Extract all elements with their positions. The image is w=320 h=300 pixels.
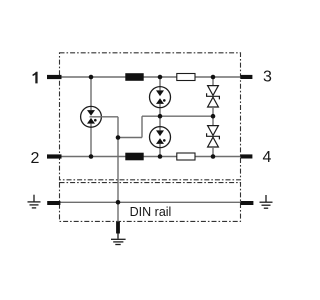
ground symbol right bbox=[260, 195, 273, 208]
svg-text:2: 2 bbox=[31, 150, 40, 167]
label 1 bbox=[33, 72, 38, 84]
node dot step bbox=[116, 135, 121, 140]
wire mid node line bbox=[142, 115, 213, 117]
node dot line1/GDT F2 bbox=[158, 75, 163, 80]
inductor L1 (line 1) bbox=[125, 73, 143, 81]
svg-text:DIN rail: DIN rail bbox=[130, 205, 172, 219]
wire step down bbox=[117, 117, 119, 138]
svg-text:4: 4 bbox=[263, 149, 272, 166]
node dot line1/GDT F1 bbox=[89, 75, 94, 80]
gas discharge tube F2 (upper right) bbox=[150, 77, 171, 116]
node dot line2/GDT F1 bbox=[89, 154, 94, 159]
suppressor diode pair V1 (upper, back-to-back zener) bbox=[207, 77, 220, 116]
inductor L2 (line 2) bbox=[125, 153, 143, 161]
ground stub terminal (below DIN box) bbox=[116, 222, 120, 234]
wire ground rail line bbox=[58, 201, 242, 203]
node dot line1/V1 bbox=[211, 75, 216, 80]
suppressor diode pair V2 (lower, back-to-back zener) bbox=[207, 116, 220, 156]
gas discharge tube F3 (lower right) bbox=[150, 116, 171, 156]
ground symbol left bbox=[28, 195, 41, 208]
ground terminal right bbox=[240, 201, 253, 205]
wire line 2 (terminal 2 to terminal 4) bbox=[58, 156, 242, 158]
node dot ground rail bbox=[116, 200, 121, 205]
wire step up bbox=[141, 116, 143, 137]
DIN rail box (dash-dot) bbox=[60, 183, 241, 222]
terminal 2 bbox=[47, 154, 62, 158]
resistor R1 (line 1) bbox=[177, 74, 195, 81]
terminal 3 bbox=[240, 75, 252, 79]
wire step horizontal bbox=[118, 137, 142, 139]
ground symbol bottom bbox=[111, 234, 126, 245]
terminal 1 bbox=[47, 75, 62, 79]
terminal 4 bbox=[240, 154, 252, 158]
svg-text:3: 3 bbox=[263, 69, 272, 86]
wire center electrode of F1 to step bbox=[90, 116, 119, 118]
node dot mid/GDT bbox=[158, 114, 163, 119]
gas discharge tube F1 (left, 3-electrode) bbox=[81, 77, 102, 157]
resistor R2 (line 2) bbox=[177, 153, 195, 160]
wire line 1 (terminal 1 to terminal 3) bbox=[58, 76, 242, 78]
node dot line2/GDT F3 bbox=[158, 154, 163, 159]
ground terminal left bbox=[47, 201, 60, 205]
enclosure boundary (dash-dot box) bbox=[60, 53, 241, 180]
node dot line2/V2 bbox=[211, 154, 216, 159]
node dot mid/V bbox=[211, 114, 216, 119]
wire center ground drop bbox=[117, 138, 119, 222]
